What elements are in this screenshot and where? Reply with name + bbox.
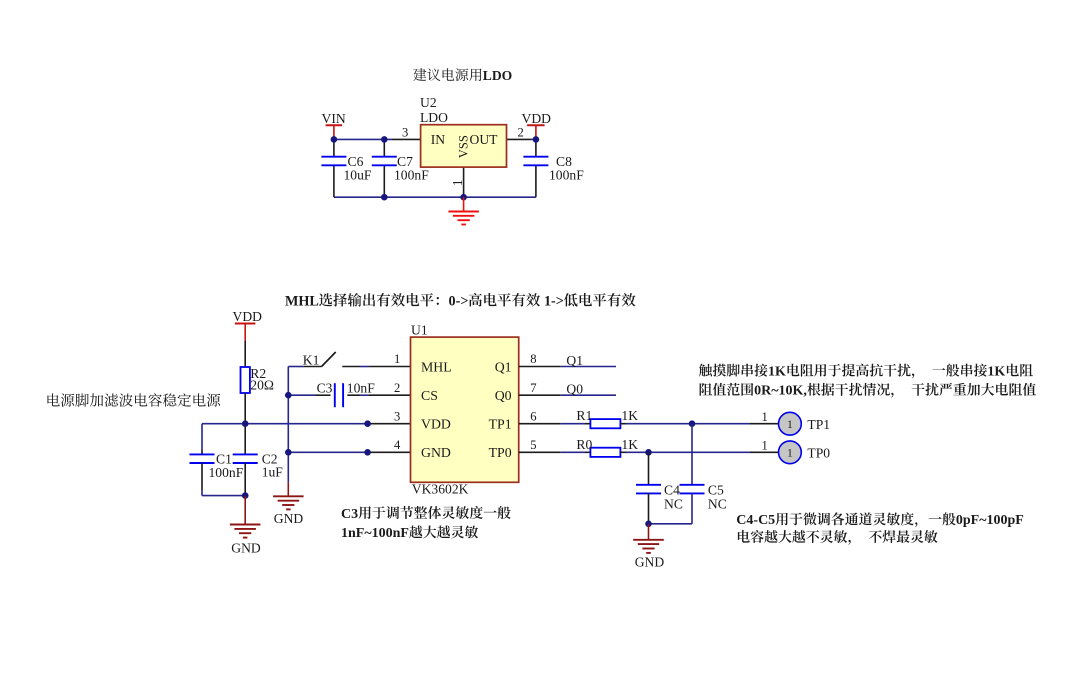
svg-text:VDD: VDD — [421, 417, 451, 432]
wire C8 bottom lead — [535, 165, 537, 197]
svg-text:K1: K1 — [303, 352, 320, 367]
svg-text:NC: NC — [664, 496, 683, 511]
svg-text:C4-C5: C4-C5 — [736, 513, 775, 528]
svg-text:2: 2 — [518, 126, 524, 140]
svg-text:1: 1 — [787, 447, 793, 460]
svg-text:4: 4 — [394, 438, 401, 452]
wire U2 OUT to VDD — [507, 138, 536, 140]
wire K1 to pin1 — [360, 366, 369, 368]
svg-text:1K: 1K — [621, 437, 638, 452]
svg-text:8: 8 — [530, 352, 536, 366]
junction C3/left vertical — [285, 392, 292, 399]
svg-text:NC: NC — [708, 496, 727, 511]
pin number 4 — [394, 438, 401, 452]
svg-text:U1: U1 — [411, 323, 428, 338]
resistor R1 — [576, 408, 638, 428]
note text 触摸脚串接 line1 — [699, 364, 768, 377]
svg-text:1: 1 — [762, 438, 768, 452]
wire GND rail to pin4 — [288, 451, 367, 453]
svg-text:VDD: VDD — [233, 309, 263, 324]
wire net Q1 — [561, 366, 616, 368]
junction pin3 wire — [364, 420, 371, 427]
junction VDD/C8 — [533, 136, 540, 143]
svg-text:C3: C3 — [341, 507, 358, 522]
wire pin2 lead — [369, 394, 411, 396]
pin number 1 (VSS, rotated) — [450, 179, 465, 186]
svg-text:Q1: Q1 — [566, 353, 583, 368]
pin number 3 — [402, 126, 408, 140]
resistor R2 — [241, 366, 275, 393]
svg-text:GND: GND — [421, 445, 451, 460]
wire C5 vertical — [691, 424, 693, 485]
junction C7 top — [381, 136, 388, 143]
wire to R0 — [561, 451, 591, 453]
svg-text:TP1: TP1 — [489, 417, 512, 432]
svg-text:GND: GND — [231, 540, 261, 555]
wire C6 top lead — [333, 139, 335, 156]
svg-text:VSS: VSS — [456, 135, 470, 158]
wire C2 bottom lead — [244, 463, 246, 496]
note text 阻值范围 line2 — [700, 383, 754, 396]
junction VIN/C6 — [331, 136, 338, 143]
svg-text:GND: GND — [635, 555, 665, 570]
svg-text:VIN: VIN — [322, 111, 346, 126]
capacitor C7 — [372, 154, 429, 182]
wire C8 top lead — [535, 139, 537, 156]
wire C7 top lead — [383, 139, 385, 156]
svg-text:2: 2 — [394, 381, 400, 395]
svg-text:IN: IN — [431, 132, 446, 147]
junction GND row/left vertical — [285, 449, 292, 456]
ground earth GND3 (maroon) — [633, 524, 664, 553]
net label Q1 — [566, 353, 583, 368]
wire C5 bottom to rail — [649, 493, 693, 524]
svg-text:R1: R1 — [576, 408, 592, 423]
junction C4 tap — [645, 449, 652, 456]
wire pin6 lead — [519, 423, 561, 425]
junction R2/C2/VDD rail — [242, 420, 249, 427]
svg-text:1nF~100nF: 1nF~100nF — [341, 526, 409, 541]
capacitor C2 — [233, 452, 284, 480]
pin number 8 — [530, 352, 536, 366]
svg-text:100nF: 100nF — [209, 465, 244, 480]
wire VDD rail to pin3 — [202, 423, 368, 425]
testpoint TP0 — [779, 441, 831, 464]
pin number 1 — [394, 352, 400, 366]
svg-text:0R~10K,: 0R~10K, — [754, 384, 807, 399]
svg-text:1K: 1K — [621, 408, 638, 423]
svg-text:3: 3 — [402, 126, 408, 140]
note text 电源脚滤波 — [47, 393, 220, 406]
svg-text:3: 3 — [394, 409, 400, 423]
svg-text:Q0: Q0 — [566, 382, 583, 397]
junction C5 tap — [689, 420, 696, 427]
svg-text:TP0: TP0 — [807, 446, 830, 461]
svg-text:U2: U2 — [420, 95, 437, 110]
wire pin7 lead — [519, 394, 561, 396]
switch K1 — [288, 352, 360, 367]
note text C4-C5 line1 — [736, 512, 1024, 528]
svg-text:TP1: TP1 — [807, 417, 830, 432]
testpoint TP1 — [779, 412, 831, 435]
wire pin5 lead — [519, 451, 561, 453]
svg-text:LDO: LDO — [420, 110, 448, 125]
wire bottom rail — [334, 196, 536, 198]
svg-text:1->: 1-> — [540, 293, 563, 309]
pin number 2 — [518, 126, 524, 140]
svg-text:6: 6 — [530, 409, 536, 423]
capacitor C6 — [321, 154, 371, 182]
wire pin3 lead — [368, 423, 411, 425]
pin number 3 — [394, 409, 400, 423]
label GND2 — [274, 511, 304, 526]
wire C2 top lead — [244, 424, 246, 455]
wire pin8 lead — [519, 366, 561, 368]
wire pin3 lead — [392, 138, 421, 140]
junction C4/C5 bottom — [645, 521, 652, 528]
wire C6 bottom lead — [333, 165, 335, 197]
svg-text:LDO: LDO — [483, 68, 512, 83]
note text C3 line1 — [341, 506, 511, 522]
wire C3 right — [347, 394, 369, 396]
wire C4 bottom lead — [648, 493, 650, 524]
wire C4 top lead — [648, 452, 650, 485]
svg-text:1K: 1K — [987, 364, 1005, 379]
svg-text:7: 7 — [530, 381, 536, 395]
svg-text:Q0: Q0 — [495, 388, 512, 403]
capacitor C1 — [190, 452, 244, 480]
ground earth GND1 (maroon) — [230, 496, 261, 538]
svg-text:10uF: 10uF — [344, 168, 372, 183]
pin number 5 — [530, 438, 536, 452]
wire R0 to TP0 — [620, 451, 778, 453]
svg-text:GND: GND — [274, 511, 304, 526]
svg-text:1K: 1K — [768, 364, 786, 379]
svg-text:MHL: MHL — [421, 359, 452, 374]
capacitor C5 — [680, 483, 727, 512]
wire to R1 — [561, 423, 591, 425]
wire pin1 lead — [369, 366, 411, 368]
svg-text:100nF: 100nF — [549, 168, 584, 183]
wire net Q0 — [561, 394, 616, 396]
capacitor C8 — [523, 154, 584, 182]
wire R1 to TP1 — [620, 423, 778, 425]
wire C1 branch down — [201, 424, 203, 455]
wire pin4 lead — [368, 451, 411, 453]
wire top rail VIN to U2 IN — [334, 138, 392, 140]
ground earth (top, red) — [448, 197, 479, 224]
pin number 7 — [530, 381, 536, 395]
svg-text:TP0: TP0 — [489, 445, 512, 460]
svg-text:CS: CS — [421, 388, 438, 403]
title text 建议电源用LDO — [413, 68, 481, 81]
note text C4-C5 line2 — [738, 530, 938, 545]
wire C3 left — [288, 394, 330, 396]
svg-text:C3: C3 — [317, 380, 333, 395]
wire left vertical (K1-C3-GND net) — [287, 367, 289, 483]
wire bottom joining rail — [202, 495, 245, 497]
junction pin4 wire — [364, 449, 371, 456]
pin number 1 (TP1) — [762, 410, 768, 424]
svg-text:R0: R0 — [576, 437, 592, 452]
junction C1-C2 bottom — [242, 492, 249, 499]
power port VDD (U1 supply) — [233, 309, 263, 341]
wire VSS pin lead — [463, 167, 465, 197]
header text MHL — [285, 293, 635, 309]
svg-text:1: 1 — [762, 410, 768, 424]
wire C7 bottom lead — [383, 165, 385, 197]
svg-text:VK3602K: VK3602K — [412, 482, 469, 497]
pin number 1 (TP0) — [762, 438, 768, 452]
svg-text:VDD: VDD — [522, 111, 552, 126]
junction VSS/bottom rail — [460, 194, 467, 201]
power port VDD (LDO out) — [522, 111, 552, 139]
label GND3 — [635, 555, 665, 570]
svg-text:20Ω: 20Ω — [250, 378, 274, 393]
junction C7 bottom — [381, 194, 388, 201]
resistor R0 — [576, 437, 638, 457]
wire VDD to R2 — [244, 341, 246, 367]
IC U1 VK3602K body — [411, 323, 519, 497]
pin number 6 — [530, 409, 536, 423]
svg-text:1: 1 — [450, 179, 465, 186]
svg-text:1uF: 1uF — [262, 465, 284, 480]
svg-text:5: 5 — [530, 438, 536, 452]
wire R2 to junction — [244, 393, 246, 424]
svg-text:1: 1 — [394, 352, 400, 366]
ground earth GND2 (maroon) — [273, 482, 304, 509]
net label Q0 — [566, 382, 583, 397]
wire C1 bottom lead — [201, 463, 203, 496]
note text C3 line2 — [341, 525, 478, 541]
capacitor C4 — [636, 483, 683, 512]
svg-text:Q1: Q1 — [495, 359, 512, 374]
svg-text:OUT: OUT — [470, 132, 499, 147]
svg-text:MHL: MHL — [285, 293, 319, 309]
svg-text:0->: 0-> — [449, 293, 469, 309]
pin number 2 — [394, 381, 400, 395]
op-amp U2 LDO regulator body — [420, 95, 507, 167]
svg-text:10nF: 10nF — [347, 380, 375, 395]
label GND1 — [231, 540, 261, 555]
svg-text:100nF: 100nF — [394, 168, 429, 183]
capacitor C3 — [317, 380, 376, 407]
svg-text:1: 1 — [787, 418, 793, 431]
power port VIN — [322, 111, 346, 139]
svg-text:0pF~100pF: 0pF~100pF — [956, 513, 1024, 528]
